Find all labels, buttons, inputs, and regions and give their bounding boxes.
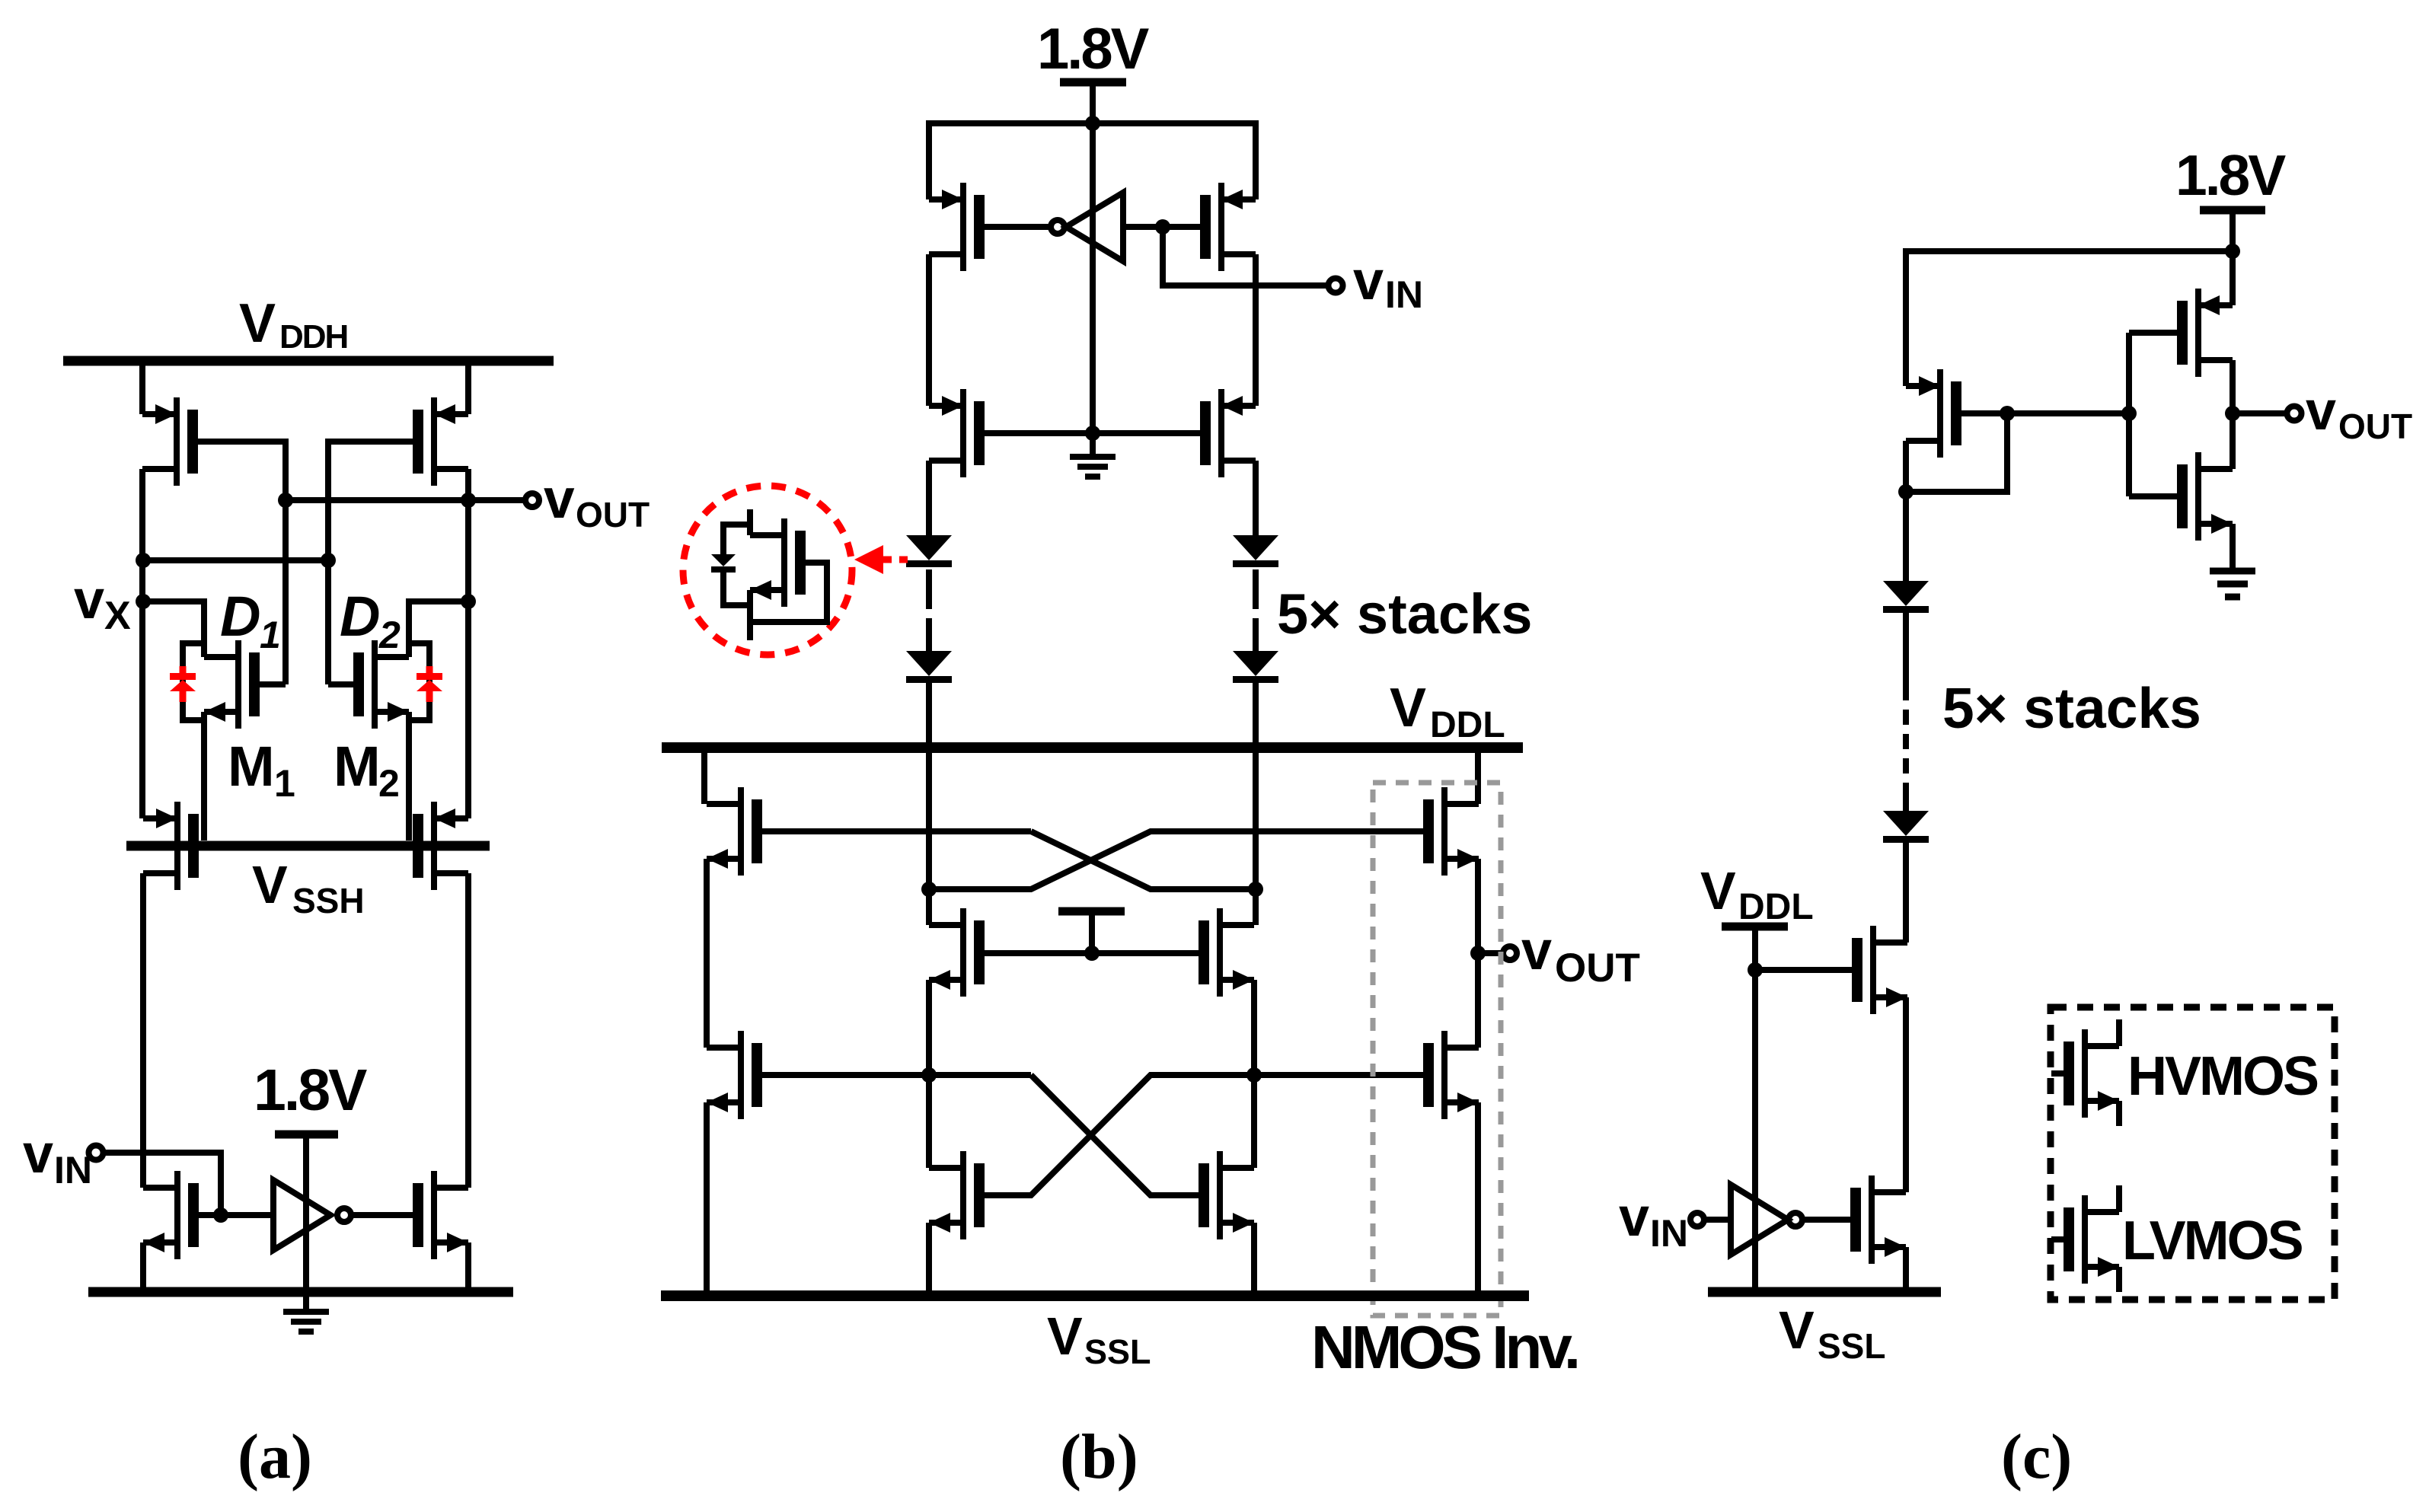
svg-text:1.8V: 1.8V xyxy=(1037,17,1150,81)
node dot gate bus xyxy=(2121,406,2137,421)
svg-text:1.8V: 1.8V xyxy=(2175,143,2286,207)
CIRCUIT B xyxy=(661,17,1640,1492)
label vOUT xyxy=(544,468,650,534)
label vIN B xyxy=(1353,250,1423,316)
transistor N2 (bottom right NMOS) xyxy=(413,1171,468,1259)
wire vIN to inverter xyxy=(1705,1217,1731,1223)
wire T12 source down xyxy=(1251,980,1257,1168)
node dot M2 tap xyxy=(461,594,476,609)
svg-text:SSH: SSH xyxy=(292,881,365,920)
wire MD source stub xyxy=(747,590,753,640)
terminal vOUT circle B xyxy=(1503,946,1517,960)
svg-text:v: v xyxy=(1353,250,1384,311)
svg-text:HVMOS: HVMOS xyxy=(2127,1046,2318,1107)
transistor P6 (B top-right PMOS) xyxy=(1200,183,1256,271)
CIRCUIT C xyxy=(1619,143,2412,1492)
terminal vIN circle C xyxy=(1690,1213,1704,1227)
wire P8 gate to center xyxy=(1093,430,1200,436)
net vOUT horizontal xyxy=(286,497,525,503)
transistor M2 xyxy=(353,640,409,729)
transistor P4 (right at VSSH) xyxy=(413,802,468,890)
transistor P9 (C stack-top PMOS diode-connected) xyxy=(1906,369,1961,458)
label (c) xyxy=(2001,1421,2072,1492)
power 1.8V T-bar B xyxy=(1060,78,1126,87)
label M2 xyxy=(334,735,400,805)
wire T-bar stem xyxy=(1089,911,1095,953)
svg-text:OUT: OUT xyxy=(576,495,650,534)
diode D4 (left stack bottom) xyxy=(906,651,952,683)
diode D3 (left stack top) xyxy=(906,535,952,567)
wire LV1 source to VSSL xyxy=(1903,1247,1909,1292)
node dot top link xyxy=(2225,244,2240,259)
wire N2 source to ground bar xyxy=(465,1242,471,1288)
wire P9 drain to stack xyxy=(1903,441,1909,582)
svg-text:(a): (a) xyxy=(238,1421,312,1492)
node dot vOUT-left xyxy=(278,493,293,508)
node dot middle gates xyxy=(1084,946,1100,961)
wire P10 drain to N3 drain xyxy=(2230,360,2236,469)
svg-text:LVMOS: LVMOS xyxy=(2122,1211,2303,1271)
svg-text:5× stacks: 5× stacks xyxy=(1277,582,1532,646)
net VSSH rail xyxy=(126,841,490,851)
svg-text:(b): (b) xyxy=(1060,1421,1138,1492)
wire HV1 drain lead up xyxy=(1906,939,1907,946)
wire MD body loop xyxy=(723,525,750,605)
svg-text:5× stacks: 5× stacks xyxy=(1942,676,2201,740)
terminal vIN circle xyxy=(89,1146,104,1160)
svg-text:M: M xyxy=(228,735,275,798)
net VDDL rail xyxy=(662,742,1523,753)
inverter U3 triangle xyxy=(1731,1185,1788,1255)
wire P9 gate wrap down xyxy=(1906,413,2007,492)
wire gate of P2 to left net xyxy=(328,442,413,684)
wire M2 drain tap from vOUT column xyxy=(409,601,468,657)
transistor P1 (left PMOS at VDDH) xyxy=(142,397,198,486)
node dot vX xyxy=(136,594,151,609)
svg-text:1: 1 xyxy=(274,762,295,805)
terminal vIN circle B xyxy=(1329,279,1343,293)
inverter U1 triangle xyxy=(273,1180,330,1250)
power VDDL T-bar C xyxy=(1722,923,1788,931)
wire right PMOS source from VDDH xyxy=(465,358,471,414)
label VSSL B xyxy=(1047,1306,1151,1371)
label VDDL B xyxy=(1390,678,1505,745)
diode D8 (C stack bottom) xyxy=(1883,811,1929,843)
svg-text:DDL: DDL xyxy=(1430,705,1505,745)
diode D6 (right stack bottom) xyxy=(1233,651,1278,683)
CIRCUIT A xyxy=(23,293,650,1492)
wire M1 body loop xyxy=(183,643,204,841)
node dot right stack bottom xyxy=(1248,882,1263,897)
wire vOUT C tap xyxy=(2233,410,2286,416)
wire N3 source to ground xyxy=(2230,524,2236,571)
wire gate bus vertical xyxy=(2126,333,2132,496)
label VSSH xyxy=(252,855,365,920)
wire HV1 source to LV1 drain xyxy=(1903,997,1909,1192)
wire right stack middle dashed xyxy=(1253,569,1259,594)
transistor P10 (C output PMOS) xyxy=(2177,289,2233,377)
net VDDH rail xyxy=(63,356,554,366)
inverter U2 bubble xyxy=(1051,220,1064,234)
terminal vOUT circle C xyxy=(2287,407,2302,421)
transistor T16 (NMOS Inv lower) xyxy=(1423,1031,1479,1119)
wire inverter input to P6 gate xyxy=(1123,224,1200,230)
node dot vOUT B xyxy=(1470,946,1486,961)
node dot center gates xyxy=(1085,426,1100,441)
transistor glyph LVMOS xyxy=(2064,1195,2119,1284)
label D1 xyxy=(220,585,281,656)
transistor T15 (NMOS Inv upper) xyxy=(1423,787,1479,876)
wire T15 source to T16 drain xyxy=(1475,859,1481,1048)
wire P5 gate to inverter bubble xyxy=(985,224,1051,230)
node dot vIN gate xyxy=(213,1207,228,1223)
transistor glyph HVMOS xyxy=(2064,1029,2119,1118)
node dot left stack bottom xyxy=(921,882,937,897)
wire right drain column xyxy=(465,469,471,818)
wire gate of P1 to vOUT net xyxy=(198,442,286,684)
label 1.8V supply A xyxy=(254,1057,367,1123)
svg-text:OUT: OUT xyxy=(2338,407,2412,446)
wire VDDL stem to inverter supply xyxy=(1752,970,1758,1292)
label M1 xyxy=(228,735,295,805)
transistor N1 (bottom left NMOS) xyxy=(143,1171,199,1259)
transistor T14 (bottom pair right) xyxy=(1199,1151,1254,1239)
wire lower cross diagonal 1 xyxy=(1031,1075,1199,1195)
wire MD drain stub xyxy=(747,509,753,535)
ground symbol B xyxy=(1070,457,1116,477)
svg-text:V: V xyxy=(1390,678,1426,738)
svg-text:V: V xyxy=(1779,1300,1815,1360)
node dot inverter input xyxy=(1155,219,1170,234)
wire left stack top xyxy=(926,461,932,536)
net VSSL rail C xyxy=(1708,1287,1941,1297)
svg-text:v: v xyxy=(2306,381,2336,442)
label D2 xyxy=(340,585,401,656)
node dot 1.8V rail xyxy=(1085,116,1100,131)
transistor P2 (right PMOS at VDDH) xyxy=(413,397,468,486)
wire left stack to latch xyxy=(926,683,932,889)
transistor T13 (bottom pair left) xyxy=(929,1151,985,1239)
wire C stack to HVMOS drain xyxy=(1903,843,1909,943)
diode D2 (red body diode) xyxy=(417,666,442,702)
transistor T12 (middle pair right) xyxy=(1199,908,1254,997)
svg-text:SSL: SSL xyxy=(1084,1332,1151,1371)
power T-bar middle xyxy=(1058,908,1125,916)
node dot vOUT-right xyxy=(461,493,476,508)
svg-text:v: v xyxy=(544,468,575,530)
diode D7 (C stack top) xyxy=(1883,581,1929,613)
wire right mid column xyxy=(1253,889,1259,925)
svg-text:1.8V: 1.8V xyxy=(254,1057,367,1123)
wire T10 gate to lower cross xyxy=(762,1072,1031,1078)
diode D5 (right stack top) xyxy=(1233,535,1278,567)
svg-text:SSL: SSL xyxy=(1818,1326,1885,1366)
wire 1.8V stem B xyxy=(1090,82,1096,123)
wire N3 gate xyxy=(2129,493,2177,499)
red dashed arrow xyxy=(854,545,908,574)
wire right column below VSSH xyxy=(465,873,471,1188)
node dot right 1412 xyxy=(1246,1067,1262,1083)
net vX wire xyxy=(143,601,204,657)
svg-text:M: M xyxy=(334,735,381,798)
svg-text:V: V xyxy=(252,855,288,914)
node dot left-736 xyxy=(136,553,151,568)
wire vIN to N1 gate xyxy=(104,1153,221,1215)
diode MD body (small black) xyxy=(711,554,736,573)
transistor M1 xyxy=(204,640,260,729)
wire T9 drain from VDDL xyxy=(701,748,707,804)
wire cross-couple to left column xyxy=(143,557,328,563)
transistor P8 (B second row right) xyxy=(1200,389,1256,477)
wire inverter output to N2 gate xyxy=(351,1212,413,1218)
label (b) xyxy=(1060,1421,1138,1492)
label vOUT C xyxy=(2306,381,2412,446)
box NMOS Inv dashed xyxy=(1373,783,1501,1316)
inverter U1 bubble xyxy=(337,1208,351,1222)
svg-text:v: v xyxy=(74,569,104,630)
transistor P5 (B top-left PMOS) xyxy=(929,183,985,271)
wire P10 gate xyxy=(2129,330,2177,336)
wire C stack dashed xyxy=(1903,613,1909,685)
label 5x stacks C xyxy=(1942,676,2201,740)
svg-text:OUT: OUT xyxy=(1555,946,1640,990)
svg-text:v: v xyxy=(23,1124,53,1185)
transistor T11 (middle pair left) xyxy=(929,908,985,997)
svg-text:V: V xyxy=(1700,861,1736,920)
wire MD gate wrap to source xyxy=(750,563,827,622)
wire 1.8V stem through inverter to ground xyxy=(303,1134,309,1312)
wire T15 drain from VDDL xyxy=(1475,748,1481,804)
svg-text:V: V xyxy=(239,293,276,354)
wire upper cross diagonal 1 xyxy=(1031,831,1256,889)
wire middle gates line xyxy=(985,950,1199,956)
wire top link to stack xyxy=(1906,251,2233,386)
transistor T9 (latch outer upper-left) xyxy=(707,787,762,876)
label vOUT B xyxy=(1521,920,1640,990)
label VDDH xyxy=(239,293,347,356)
node dot VDDL gate xyxy=(1748,962,1763,978)
label HVMOS xyxy=(2127,1046,2318,1107)
wire T9 gate to upper cross xyxy=(762,828,1031,834)
transistor T10 (latch outer lower-left) xyxy=(707,1031,762,1119)
wire right stack top xyxy=(1253,461,1259,536)
wire left PMOS source from VDDH xyxy=(139,358,145,414)
svg-text:NMOS Inv.: NMOS Inv. xyxy=(1311,1313,1577,1381)
wire center to ground xyxy=(1090,433,1096,457)
wire HVMOS glyph stubs xyxy=(2051,1019,2119,1126)
wire LVMOS glyph stubs xyxy=(2051,1185,2119,1292)
svg-text:X: X xyxy=(104,594,131,638)
wire upper cross diagonal 2 xyxy=(929,831,1423,889)
svg-text:IN: IN xyxy=(1650,1212,1688,1255)
wire T16 source to VSSL xyxy=(1475,1102,1481,1291)
red dashed circle callout xyxy=(683,486,852,655)
wire T9 source to T10 drain xyxy=(704,859,710,1048)
label 1.8V supply C xyxy=(2175,143,2286,207)
net 1.8V rail wire xyxy=(929,120,1256,126)
wire P9 gate line to output gates xyxy=(1961,410,2129,416)
transistor HV1 (C HVMOS) xyxy=(1852,926,1907,1014)
wire 1.8V vertical through inverter to gates row xyxy=(1090,123,1096,433)
wire left column below VSSH xyxy=(140,873,146,1188)
svg-text:v: v xyxy=(1521,920,1552,981)
label 1.8V supply B xyxy=(1037,17,1150,81)
wire HVMOS gate xyxy=(1755,967,1852,973)
wire M1 gate to vOUT net xyxy=(260,681,286,687)
label VSSL C xyxy=(1779,1300,1885,1366)
wire T11 source down xyxy=(926,980,932,1168)
transistor MD (diode-connected MOSFET in callout) xyxy=(750,518,806,607)
wire 1.8V stem C xyxy=(2230,210,2236,251)
svg-text:IN: IN xyxy=(54,1149,92,1191)
wire right column P6 drain to P8 source xyxy=(1253,254,1259,406)
node dot P9 gate wrap xyxy=(2000,406,2015,421)
wire N1 source to ground bar xyxy=(140,1242,146,1288)
label 5x stacks B xyxy=(1277,582,1532,646)
wire inverter output to LV1 gate xyxy=(1802,1217,1850,1223)
wire N1 gate to inverter input xyxy=(199,1212,273,1218)
ground symbol A xyxy=(283,1312,329,1332)
label NMOS Inv. xyxy=(1311,1313,1577,1381)
svg-text:2: 2 xyxy=(378,762,400,805)
wire left column P5 drain to P7 source xyxy=(926,254,932,406)
svg-text:(c): (c) xyxy=(2001,1421,2072,1492)
wire M2 body loop xyxy=(409,643,429,841)
wire P6 source from rail xyxy=(1253,120,1259,199)
ground bar A xyxy=(88,1287,513,1297)
label vX xyxy=(74,569,131,638)
svg-text:D: D xyxy=(340,585,380,648)
net VSSL rail B xyxy=(661,1290,1529,1301)
label LVMOS xyxy=(2122,1211,2303,1271)
power 1.8V T-bar C xyxy=(2200,206,2265,215)
wire P5 source from rail xyxy=(926,120,932,199)
wire T13 source to VSSL xyxy=(926,1223,932,1291)
svg-text:DDH: DDH xyxy=(279,318,347,356)
wire lower cross diagonal 2 xyxy=(985,1075,1423,1195)
node dot right-736 xyxy=(321,553,336,568)
label VDDL C xyxy=(1700,861,1814,927)
wire VDDL stem xyxy=(1752,927,1758,970)
svg-text:v: v xyxy=(1619,1187,1649,1248)
wire P10 source from rail xyxy=(2230,251,2236,305)
svg-text:DDL: DDL xyxy=(1738,887,1814,927)
transistor N3 (C output NMOS) xyxy=(2177,452,2233,541)
inverter U3 bubble xyxy=(1789,1213,1802,1227)
wire left mid column xyxy=(926,889,932,925)
node dot left 1412 xyxy=(921,1067,937,1083)
transistor LV1 (C LVMOS) xyxy=(1850,1175,1906,1264)
inverter U2 triangle (points left) xyxy=(1066,193,1123,261)
svg-text:1: 1 xyxy=(260,614,281,656)
ground symbol C xyxy=(2210,571,2255,597)
box legend dashed xyxy=(2051,1007,2335,1300)
node dot P9 drain xyxy=(1898,484,1914,499)
wire vOUT B tap xyxy=(1478,950,1502,956)
label vIN xyxy=(23,1124,92,1191)
wire left drain column xyxy=(139,469,145,818)
wire T14 source to VSSL xyxy=(1251,1223,1257,1291)
svg-text:V: V xyxy=(1047,1306,1083,1366)
wire vIN down and right xyxy=(1163,227,1326,285)
diode D1 (red body diode) xyxy=(170,666,196,702)
power 1.8V T-bar A xyxy=(275,1131,338,1139)
wire P7 gate to center xyxy=(985,430,1093,436)
svg-text:D: D xyxy=(220,585,260,648)
wire left stack middle dashed xyxy=(926,569,932,594)
label (a) xyxy=(238,1421,312,1492)
svg-text:IN: IN xyxy=(1385,273,1423,316)
terminal vOUT circle xyxy=(525,493,539,507)
wire right stack to latch xyxy=(1253,683,1259,889)
transistor P3 (left at VSSH) xyxy=(143,802,199,890)
wire T10 source to VSSL xyxy=(704,1102,710,1291)
node dot vOUT C xyxy=(2225,406,2240,421)
label vIN C xyxy=(1619,1187,1688,1255)
wire M2 gate to left net xyxy=(328,681,353,687)
transistor P7 (B second row left) xyxy=(929,389,985,477)
svg-text:2: 2 xyxy=(378,614,401,656)
